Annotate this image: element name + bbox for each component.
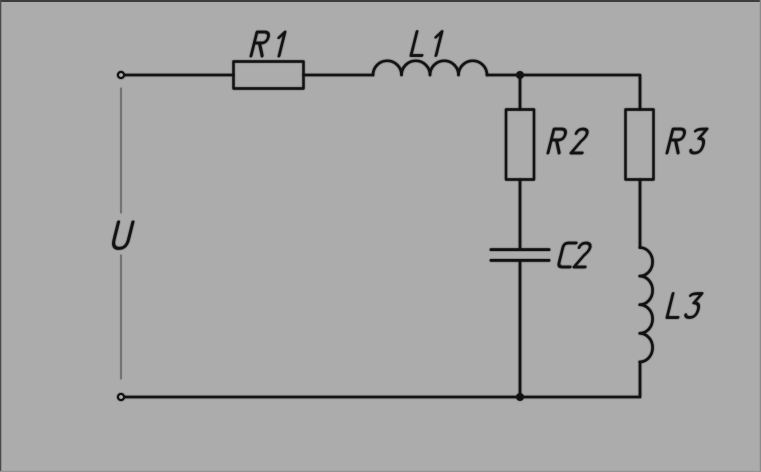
frame top edge [0, 0, 761, 2]
label R2 digit 2 [571, 129, 588, 153]
source U lead line (upper segment) [120, 88, 122, 213]
label R3 [667, 129, 686, 153]
wire: node A down to R2 [519, 75, 522, 110]
label R2 [548, 129, 567, 153]
label L3 digit 3 [685, 294, 702, 318]
wire: L3 to bottom-right corner to node B [520, 362, 640, 397]
frame left edge [0, 0, 1, 472]
wire: node A to top-right corner down to R3 [520, 75, 640, 110]
resistor R2 [506, 110, 534, 180]
terminal: bottom-left open circle [118, 394, 124, 400]
capacitor C2 top plate [491, 248, 549, 251]
label L1 [411, 32, 428, 56]
inductor L3 [640, 248, 653, 362]
wire: top-left terminal to R1 [125, 74, 234, 77]
wire: L1 to node A [487, 74, 520, 77]
frame right edge [760, 0, 761, 472]
source U lead line (lower segment) [120, 255, 122, 379]
node B junction dot [516, 393, 524, 401]
resistor R1 [234, 62, 304, 89]
label L1 digit 1 [431, 32, 442, 56]
wire: R3 to L3 [639, 180, 642, 248]
node A junction dot [516, 71, 524, 79]
inductor L1 [373, 61, 487, 75]
label C2 [558, 243, 576, 267]
wire: C2 to node B [519, 262, 522, 397]
label C2 digit 2 [574, 243, 591, 267]
frame bottom edge [0, 471, 761, 472]
label L3 [667, 294, 684, 318]
label U (source) [112, 222, 133, 248]
label R1 digit 1 [274, 32, 285, 56]
capacitor C2 bottom plate [491, 259, 549, 262]
resistor R3 [626, 110, 654, 180]
terminal: top-left open circle [118, 72, 124, 78]
label R3 digit 3 [690, 129, 707, 153]
wire: R1 to L1 [304, 74, 374, 77]
wire: node B to bottom-left terminal [125, 396, 520, 399]
wire: R2 to C2 [519, 180, 522, 249]
label R1 [251, 32, 270, 56]
